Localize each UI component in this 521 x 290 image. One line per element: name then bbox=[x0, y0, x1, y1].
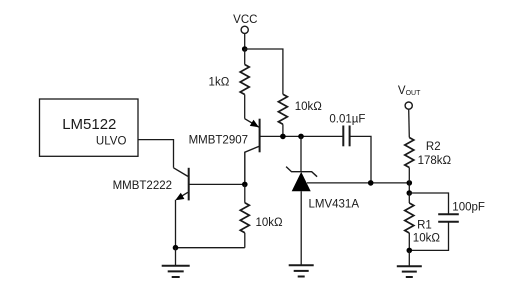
wire VCC terminal down bbox=[244, 33, 246, 49]
junction divider top node bbox=[407, 180, 413, 186]
svg-text:0.01µF: 0.01µF bbox=[329, 114, 365, 126]
wire Q1 base to Q2 collector node bbox=[189, 183, 245, 185]
resistor 1k bbox=[240, 49, 249, 119]
svg-text:MMBT2222: MMBT2222 bbox=[113, 180, 172, 192]
svg-text:10kΩ: 10kΩ bbox=[295, 101, 323, 113]
ground G3 bbox=[397, 250, 422, 277]
wire divider node to R1 bbox=[408, 183, 410, 193]
junction R1 bottom / 100pF bottom bbox=[407, 248, 413, 254]
svg-text:100pF: 100pF bbox=[452, 201, 485, 213]
junction 100pF top node bbox=[407, 190, 413, 196]
resistor 10k pull-up bbox=[278, 94, 287, 136]
node VOUT terminal bbox=[405, 102, 412, 109]
transistor Q1 MMBT2222 bbox=[174, 168, 189, 248]
svg-text:R1: R1 bbox=[417, 220, 432, 232]
wire emitter node to 10k bottom bbox=[176, 247, 245, 249]
svg-text:MMBT2907: MMBT2907 bbox=[189, 134, 248, 146]
transistor Q2 MMBT2907 bbox=[245, 119, 260, 185]
svg-text:VCC: VCC bbox=[233, 14, 257, 26]
resistor R2 bbox=[405, 138, 414, 183]
wire ULVO output to Q1 collector bbox=[138, 140, 174, 168]
wire 100pF branch top bbox=[409, 193, 448, 214]
svg-text:ULVO: ULVO bbox=[96, 135, 127, 147]
wire Q2 base to cap node bbox=[260, 135, 344, 137]
ground G1 bbox=[162, 248, 190, 277]
svg-text:LM5122: LM5122 bbox=[62, 116, 116, 133]
IC U1 LM5122 box bbox=[40, 99, 139, 156]
resistor R1 bbox=[405, 193, 414, 250]
svg-text:10kΩ: 10kΩ bbox=[256, 217, 284, 229]
svg-text:178kΩ: 178kΩ bbox=[418, 155, 452, 167]
wire cap to feedback node bbox=[350, 136, 371, 183]
wire VCC node to 10k resistor branch bbox=[245, 49, 283, 94]
junction feedback cap node bbox=[368, 180, 374, 186]
junction Q1 base / Q2 collector / 10k bbox=[242, 182, 248, 188]
svg-text:LMV431A: LMV431A bbox=[309, 199, 360, 211]
shunt regulator U2 LMV431A bbox=[286, 136, 317, 265]
resistor 10k lower bbox=[240, 184, 249, 247]
svg-text:10kΩ: 10kΩ bbox=[413, 232, 441, 244]
junction LMV431A cathode node bbox=[298, 134, 304, 140]
junction VCC node bbox=[242, 46, 248, 52]
junction Q1 emitter / 10k bottom bbox=[173, 245, 179, 251]
capacitor 100pF bbox=[438, 214, 459, 222]
wire VOUT to R2 bbox=[408, 109, 411, 137]
ground G2 bbox=[289, 265, 314, 276]
wire 100pF branch bottom bbox=[409, 222, 448, 251]
junction 10k pull-up / Q2 base bbox=[280, 134, 286, 140]
node VCC terminal bbox=[241, 26, 248, 33]
capacitor 0.01uF bbox=[343, 126, 349, 147]
svg-text:1kΩ: 1kΩ bbox=[209, 76, 230, 88]
wire LMV431A ref to divider node bbox=[307, 182, 409, 184]
svg-text:R2: R2 bbox=[426, 141, 441, 153]
